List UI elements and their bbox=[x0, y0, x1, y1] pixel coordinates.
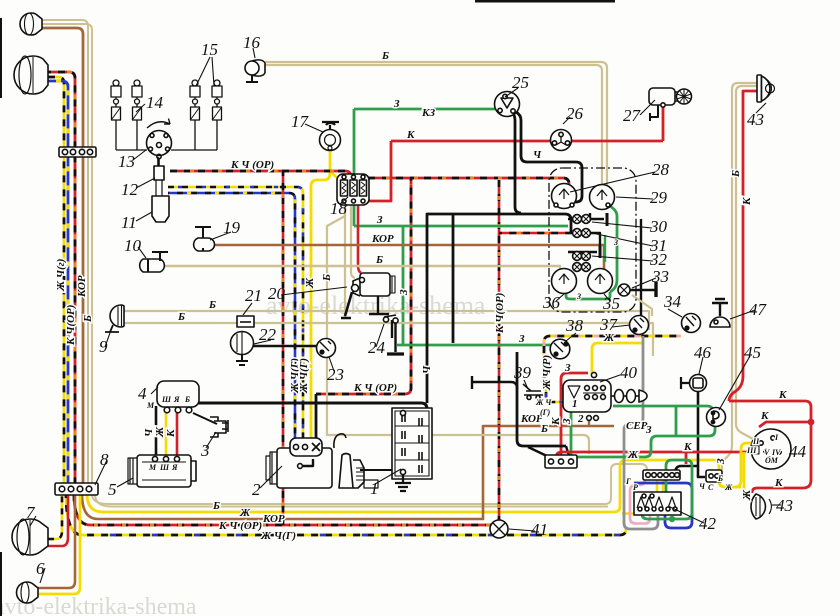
svg-text:Ж Ч: Ж Ч bbox=[535, 398, 552, 407]
svg-text:11: 11 bbox=[121, 213, 137, 232]
svg-text:Б: Б bbox=[540, 423, 548, 435]
svg-text:Ч: Ч bbox=[533, 149, 542, 161]
svg-text:36: 36 bbox=[542, 293, 561, 312]
svg-text:Ч: Ч bbox=[699, 482, 706, 491]
svg-text:Б: Б bbox=[321, 274, 333, 282]
svg-text:45: 45 bbox=[744, 343, 761, 362]
svg-text:К Ч(ОР): К Ч(ОР) bbox=[494, 293, 506, 334]
svg-text:30: 30 bbox=[649, 217, 668, 236]
svg-text:К: К bbox=[741, 197, 753, 206]
svg-text:З: З bbox=[561, 418, 573, 425]
svg-text:М: М bbox=[146, 401, 155, 410]
svg-text:26: 26 bbox=[566, 104, 584, 123]
svg-text:19: 19 bbox=[223, 218, 241, 237]
svg-text:КОР: КОР bbox=[371, 233, 394, 245]
svg-text:К: К bbox=[165, 429, 177, 438]
svg-text:27: 27 bbox=[623, 106, 642, 125]
svg-text:К Ч (ОР): К Ч (ОР) bbox=[230, 159, 274, 171]
svg-text:С: С bbox=[708, 483, 714, 492]
svg-text:Б: Б bbox=[184, 395, 190, 404]
svg-text:43: 43 bbox=[776, 496, 793, 515]
svg-text:42: 42 bbox=[699, 514, 717, 533]
svg-text:Б: Б bbox=[717, 474, 723, 483]
svg-text:18: 18 bbox=[330, 199, 348, 218]
svg-text:К: К bbox=[683, 441, 692, 453]
svg-text:6: 6 bbox=[36, 559, 45, 578]
svg-text:Б: Б bbox=[82, 315, 94, 323]
svg-text:К: К bbox=[406, 129, 415, 141]
svg-text:23: 23 bbox=[327, 365, 344, 384]
svg-text:47: 47 bbox=[749, 300, 768, 319]
svg-text:Ж Ч(г): Ж Ч(г) bbox=[55, 259, 67, 292]
svg-text:20: 20 bbox=[268, 284, 286, 303]
svg-text:Б: Б bbox=[212, 500, 220, 512]
svg-text:41: 41 bbox=[531, 520, 548, 539]
svg-text:К Ч (ОР): К Ч (ОР) bbox=[218, 520, 262, 532]
svg-text:К: К bbox=[778, 389, 787, 401]
svg-text:З: З bbox=[564, 362, 571, 374]
svg-text:Р: Р bbox=[633, 483, 638, 492]
svg-text:12: 12 bbox=[121, 180, 139, 199]
svg-text:Ж Ч(Г): Ж Ч(Г) bbox=[298, 358, 310, 394]
svg-text:Я: Я bbox=[171, 463, 178, 472]
svg-text:КОР: КОР bbox=[262, 513, 285, 525]
svg-text:17: 17 bbox=[291, 112, 310, 131]
svg-text:35: 35 bbox=[602, 294, 620, 313]
svg-text:З: З bbox=[376, 214, 383, 226]
svg-text:39: 39 bbox=[513, 363, 532, 382]
svg-text:З: З bbox=[518, 333, 525, 345]
svg-text:Ж: Ж bbox=[724, 483, 733, 492]
svg-text:28: 28 bbox=[652, 160, 670, 179]
svg-text:(Г): (Г) bbox=[540, 408, 550, 417]
svg-text:33: 33 bbox=[651, 267, 669, 286]
svg-text:14: 14 bbox=[146, 93, 164, 112]
svg-text:II: II bbox=[752, 437, 760, 446]
svg-text:1: 1 bbox=[572, 398, 578, 410]
svg-text:29: 29 bbox=[650, 188, 668, 207]
svg-text:24: 24 bbox=[368, 338, 386, 357]
svg-text:Ж: Ж bbox=[627, 449, 639, 461]
svg-text:46: 46 bbox=[694, 343, 712, 362]
svg-text:Ж Ч(Р): Ж Ч(Р) bbox=[541, 355, 553, 391]
svg-text:Ж: Ж bbox=[239, 507, 251, 519]
svg-text:34: 34 bbox=[663, 292, 682, 311]
svg-text:З: З bbox=[613, 238, 618, 247]
svg-text:13: 13 bbox=[118, 152, 135, 171]
svg-text:10: 10 bbox=[124, 236, 142, 255]
svg-text:1: 1 bbox=[370, 479, 379, 498]
svg-text:Ж: Ж bbox=[304, 277, 316, 289]
svg-text:15: 15 bbox=[201, 40, 218, 59]
svg-text:9: 9 bbox=[99, 337, 108, 356]
svg-text:Ж Ч(Г): Ж Ч(Г) bbox=[260, 530, 296, 542]
svg-text:К: К bbox=[774, 477, 783, 489]
svg-text:16: 16 bbox=[243, 33, 261, 52]
svg-text:Б: Б bbox=[730, 170, 742, 178]
svg-text:КОР: КОР bbox=[76, 275, 88, 298]
svg-text:К: К bbox=[760, 410, 769, 422]
svg-text:Б: Б bbox=[208, 299, 216, 311]
svg-text:З: З bbox=[715, 458, 727, 465]
svg-text:40: 40 bbox=[620, 363, 638, 382]
svg-text:З: З bbox=[398, 289, 410, 296]
svg-text:25: 25 bbox=[512, 73, 529, 92]
svg-text:К Ч(ОР): К Ч(ОР) bbox=[65, 305, 77, 346]
svg-text:38: 38 bbox=[565, 316, 584, 335]
svg-text:43: 43 bbox=[747, 110, 764, 129]
svg-text:СЕР: СЕР bbox=[626, 420, 648, 432]
svg-text:3: 3 bbox=[200, 441, 210, 460]
svg-text:Б: Б bbox=[381, 50, 389, 62]
svg-text:Ш: Ш bbox=[161, 395, 172, 404]
svg-text:44: 44 bbox=[789, 442, 807, 461]
svg-text:III: III bbox=[746, 446, 757, 455]
svg-text:Ж: Ж bbox=[741, 489, 753, 501]
svg-text:2: 2 bbox=[252, 480, 261, 499]
svg-text:З: З bbox=[645, 424, 652, 436]
svg-text:5: 5 bbox=[108, 480, 117, 499]
svg-text:КЗ: КЗ bbox=[421, 107, 435, 119]
svg-text:З: З bbox=[393, 98, 400, 110]
svg-text:Ч: Ч bbox=[421, 365, 433, 374]
svg-text:8: 8 bbox=[100, 450, 109, 469]
svg-text:З: З bbox=[576, 292, 581, 301]
svg-text:Ш: Ш bbox=[159, 463, 170, 472]
svg-text:22: 22 bbox=[259, 325, 277, 344]
svg-text:Г: Г bbox=[625, 477, 631, 486]
svg-text:М: М bbox=[148, 463, 157, 472]
svg-text:21: 21 bbox=[245, 286, 262, 305]
svg-text:ОМ: ОМ bbox=[765, 456, 779, 465]
svg-text:К Ч (ОР): К Ч (ОР) bbox=[353, 382, 397, 394]
svg-text:Б: Б bbox=[177, 311, 185, 323]
svg-text:Я: Я bbox=[173, 395, 180, 404]
svg-text:4: 4 bbox=[138, 384, 147, 403]
svg-text:2: 2 bbox=[577, 413, 584, 425]
svg-text:Б: Б bbox=[375, 254, 383, 266]
svg-text:Ж: Ж bbox=[603, 332, 615, 344]
